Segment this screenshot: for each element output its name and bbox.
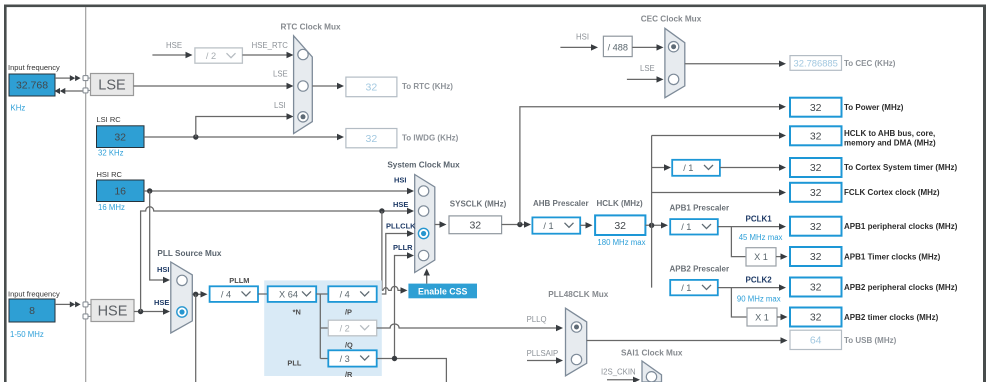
HSE_RTC /2 divider dropdown (grayed) — [195, 48, 243, 63]
svg-text:32: 32 — [114, 131, 126, 143]
/Q divider dropdown (grayed) — [328, 320, 376, 336]
wire APB2 to peripheral box — [718, 287, 783, 289]
svg-text:/ 488: / 488 — [608, 43, 628, 53]
svg-text:APB2 Prescaler: APB2 Prescaler — [670, 264, 730, 273]
CEC clock mux shape — [665, 28, 685, 97]
svg-text:To USB (MHz): To USB (MHz) — [844, 336, 897, 345]
svg-text:HCLK to AHB bus, core,: HCLK to AHB bus, core, — [844, 129, 935, 138]
wire LSE box to port — [55, 78, 83, 91]
wire cortex prescaler to box — [720, 167, 783, 169]
svg-text:HSI: HSI — [157, 265, 170, 274]
wire HSE to PLL source mux — [134, 311, 168, 313]
svg-text:RTC Clock Mux: RTC Clock Mux — [280, 23, 340, 32]
wire to FCLK box — [652, 192, 783, 194]
svg-text:32: 32 — [366, 82, 378, 94]
svg-text:PLL48CLK Mux: PLL48CLK Mux — [548, 290, 608, 299]
HSE oscillator box — [91, 300, 134, 322]
HCLK to AHB value box — [790, 126, 842, 145]
wire AHB to HCLK box — [580, 224, 589, 226]
svg-text:Enable CSS: Enable CSS — [418, 286, 468, 296]
wire PLLCLK from /P to system mux — [377, 234, 412, 295]
svg-text:45 MHz max: 45 MHz max — [739, 233, 783, 242]
system mux radio HSI — [418, 186, 428, 196]
svg-text:APB1 peripheral clocks (MHz): APB1 peripheral clocks (MHz) — [844, 222, 958, 231]
HSE port arrows right — [70, 301, 81, 307]
svg-text:/Q: /Q — [345, 340, 353, 349]
wire SYSCLK up to To Power — [520, 107, 783, 225]
wire PLLQ to PLL48 mux with hop — [377, 324, 560, 328]
svg-text:1-50 MHz: 1-50 MHz — [10, 330, 44, 339]
wire LSE stub to CEC mux — [627, 78, 661, 80]
LSI RC box 32 — [97, 126, 145, 148]
svg-text:APB2 peripheral clocks (MHz): APB2 peripheral clocks (MHz) — [844, 283, 958, 292]
wire HSI stub to /488 — [560, 46, 594, 48]
PLL source mux shape — [171, 262, 193, 333]
svg-text:180 MHz max: 180 MHz max — [597, 238, 645, 247]
svg-text:32: 32 — [810, 187, 822, 199]
To USB value box — [790, 330, 842, 349]
wire HSE stub to /2 divider — [152, 54, 188, 56]
system mux radio PLLCLK selected — [418, 228, 428, 238]
wire PLL mux to PLLM — [192, 293, 204, 295]
junction /R output — [392, 356, 397, 361]
svg-text:memory and DMA (MHz): memory and DMA (MHz) — [844, 139, 936, 148]
HCLK value box — [595, 215, 645, 235]
svg-text:HSI: HSI — [394, 176, 407, 185]
svg-text:PLLM: PLLM — [229, 276, 249, 285]
svg-text:64: 64 — [810, 335, 822, 347]
HSE port squares — [83, 302, 91, 319]
svg-text:APB1 Timer clocks (MHz): APB1 Timer clocks (MHz) — [844, 252, 941, 261]
svg-text:16: 16 — [114, 185, 126, 197]
svg-text:HSE: HSE — [98, 304, 128, 320]
svg-text:Input frequency: Input frequency — [8, 63, 60, 72]
RTC mux radio HSE_RTC — [298, 49, 308, 59]
To Power value box — [790, 98, 842, 117]
svg-text:PCLK1: PCLK1 — [746, 215, 773, 224]
LSE input frequency box 32.768 — [9, 74, 55, 96]
svg-text:HCLK (MHz): HCLK (MHz) — [597, 199, 644, 208]
SAI1 mux shape (partial) — [642, 361, 662, 382]
svg-text:32: 32 — [614, 220, 626, 232]
svg-text:PLLQ: PLLQ — [527, 315, 547, 324]
svg-text:SAI1 Clock Mux: SAI1 Clock Mux — [621, 349, 683, 358]
svg-text:HSI RC: HSI RC — [97, 170, 123, 179]
wire PLLM to N multiplier — [258, 293, 268, 295]
junction PLL mux output — [193, 292, 198, 297]
svg-text:I2S_CKIN: I2S_CKIN — [601, 368, 636, 377]
SAI1 mux radio — [646, 372, 656, 382]
svg-text:*N: *N — [293, 307, 301, 316]
PLL mux radio HSE selected — [177, 307, 187, 317]
APB2 peripheral value box — [790, 278, 842, 297]
APB1 timer value box — [790, 247, 842, 266]
HSE input frequency box 8 — [9, 299, 55, 322]
svg-text:LSE: LSE — [273, 70, 288, 79]
svg-text:LSI: LSI — [274, 101, 286, 110]
svg-text:PLLCLK: PLLCLK — [386, 222, 416, 231]
svg-text:To Power (MHz): To Power (MHz) — [844, 103, 904, 112]
PLL48 mux shape — [566, 308, 587, 376]
wire LSE to RTC mux — [134, 85, 292, 87]
PLL48 mux radio PLLSAIP — [571, 354, 581, 364]
svg-text:LSE: LSE — [98, 78, 126, 94]
svg-text:To Cortex System timer (MHz): To Cortex System timer (MHz) — [844, 163, 958, 172]
HSI RC box 16 — [97, 180, 145, 202]
svg-text:32: 32 — [366, 133, 378, 145]
/488 divider box — [603, 36, 632, 56]
wire /R output — [377, 359, 447, 382]
wire X1 to APB1 timer box — [776, 256, 784, 258]
panel separator line — [85, 7, 86, 382]
wire PLLR from /R to system mux — [395, 256, 413, 359]
junction LSI — [193, 134, 198, 139]
FCLK value box — [790, 183, 842, 202]
svg-text:32.768: 32.768 — [16, 80, 48, 92]
svg-text:32: 32 — [810, 102, 822, 114]
LSE port arrows left — [55, 88, 66, 94]
wire to cortex prescaler — [652, 167, 668, 169]
N multiplier dropdown X 64 — [268, 286, 317, 302]
junction SYSCLK — [517, 222, 522, 227]
svg-text:HSE: HSE — [166, 41, 182, 50]
svg-text:/ 3: / 3 — [340, 354, 350, 364]
wire LSI to junction and IWDG — [144, 136, 341, 138]
svg-text:32 KHz: 32 KHz — [98, 149, 124, 158]
APB1 prescaler dropdown — [670, 219, 718, 234]
CEC mux radio LSE — [668, 74, 678, 84]
svg-text:LSE: LSE — [640, 64, 655, 73]
svg-text:HSI: HSI — [576, 33, 589, 42]
wire LSI up to RTC mux — [196, 117, 291, 138]
svg-text:/ 1: / 1 — [543, 221, 553, 231]
junction HSE — [138, 309, 143, 314]
RTC clock mux shape — [294, 36, 313, 134]
PLL48 mux radio PLLQ selected — [571, 322, 581, 332]
svg-text:X 1: X 1 — [754, 252, 768, 262]
svg-text:32.786885: 32.786885 — [794, 57, 838, 68]
svg-text:KHz: KHz — [11, 104, 26, 113]
svg-text:32: 32 — [810, 131, 822, 143]
wire system mux to SYSCLK box — [435, 224, 444, 226]
APB2 prescaler dropdown — [670, 280, 718, 295]
wire /2 to RTC mux — [242, 54, 291, 56]
svg-text:/ 1: / 1 — [681, 283, 691, 293]
junction HSI — [147, 188, 152, 193]
svg-text:CEC Clock Mux: CEC Clock Mux — [641, 15, 702, 24]
LSE port squares — [83, 76, 91, 93]
junction HSE css branch — [379, 208, 384, 213]
wire APB1 to peripheral box — [718, 226, 783, 228]
wire APB1 branch to X1 — [731, 227, 746, 257]
cortex prescaler dropdown — [672, 160, 720, 176]
svg-text:/ 2: / 2 — [206, 51, 216, 61]
svg-text:8: 8 — [29, 305, 35, 317]
svg-text:/ 1: / 1 — [683, 163, 693, 173]
svg-text:LSI RC: LSI RC — [97, 115, 122, 124]
svg-text:/ 1: / 1 — [681, 222, 691, 232]
svg-text:/ 4: / 4 — [221, 290, 231, 300]
svg-text:FCLK Cortex clock (MHz): FCLK Cortex clock (MHz) — [844, 188, 940, 197]
svg-text:/P: /P — [345, 307, 352, 316]
junction HCLK — [649, 223, 654, 228]
svg-text:PLLSAIP: PLLSAIP — [527, 349, 559, 358]
/R divider dropdown — [328, 350, 376, 366]
LSE oscillator box — [91, 74, 134, 96]
CEC mux radio HSI selected — [668, 42, 678, 52]
svg-text:X 64: X 64 — [279, 290, 298, 300]
wire HSE down to CSS with hops — [382, 211, 405, 290]
svg-text:32: 32 — [469, 220, 481, 232]
wire I2S_CKIN stub — [607, 379, 637, 381]
To CEC value box — [790, 56, 842, 71]
svg-text:32: 32 — [810, 162, 822, 174]
svg-text:HSE: HSE — [393, 200, 408, 209]
wire HSE box to port — [55, 303, 70, 305]
svg-text:To RTC (KHz): To RTC (KHz) — [402, 82, 453, 91]
To Cortex value box — [790, 158, 842, 177]
svg-text:90 MHz max: 90 MHz max — [737, 295, 781, 304]
system clock mux shape — [415, 175, 435, 273]
Enable CSS button — [408, 284, 477, 299]
LSE port arrows right — [70, 75, 81, 81]
PLL block region — [264, 280, 382, 376]
svg-text:X 1: X 1 — [755, 312, 769, 322]
X1 multiplier box APB1 — [746, 248, 776, 266]
svg-text:SYSCLK (MHz): SYSCLK (MHz) — [450, 200, 507, 209]
HCLK distribution riser — [651, 136, 653, 288]
wire HCLK to APB1 prescaler — [645, 224, 665, 226]
RTC mux radio LSI selected — [298, 112, 308, 122]
CSS arrow up to mux — [426, 274, 428, 284]
APB1 peripheral value box — [790, 217, 842, 236]
svg-text:APB1 Prescaler: APB1 Prescaler — [670, 204, 730, 213]
svg-text:/R: /R — [345, 370, 353, 379]
svg-text:PLLR: PLLR — [393, 243, 413, 252]
svg-text:To CEC (KHz): To CEC (KHz) — [844, 59, 896, 68]
wire X1 to APB2 timer box — [777, 316, 784, 318]
PLLM dropdown — [210, 286, 258, 302]
wire PLL mux output down — [195, 294, 197, 382]
system mux radio HSE — [418, 206, 428, 216]
AHB prescaler dropdown — [532, 217, 580, 233]
wire APB2 branch to X1 — [731, 288, 747, 317]
svg-text:To IWDG (KHz): To IWDG (KHz) — [402, 134, 459, 143]
HCLK to AHB label — [844, 129, 936, 148]
svg-text:PLL: PLL — [287, 359, 301, 368]
PLL mux radio HSI — [177, 275, 187, 285]
wire HCLK to AHB bus box — [652, 135, 783, 137]
/P divider dropdown — [328, 286, 376, 302]
wire SYSCLK to AHB prescaler — [502, 224, 528, 226]
svg-text:Input frequency: Input frequency — [8, 290, 60, 299]
wire /488 to CEC mux — [632, 46, 660, 48]
svg-text:HSE: HSE — [154, 298, 169, 307]
svg-text:32: 32 — [810, 312, 822, 324]
wire HSI down to PLL source mux — [150, 191, 168, 280]
svg-text:APB2 timer clocks (MHz): APB2 timer clocks (MHz) — [844, 313, 939, 322]
svg-text:16 MHz: 16 MHz — [98, 203, 125, 212]
X1 multiplier box APB2 — [747, 308, 777, 326]
svg-text:System Clock Mux: System Clock Mux — [387, 161, 460, 170]
APB2 timer value box — [790, 308, 842, 327]
To IWDG value box — [346, 129, 397, 148]
wire PLL48 mux to USB box — [587, 340, 784, 342]
svg-text:/ 2: / 2 — [340, 323, 350, 333]
wire HSE up to system clock mux with hop — [141, 207, 412, 312]
To RTC value box — [346, 77, 397, 97]
wire HSI to system clock mux — [144, 190, 412, 192]
system mux radio PLLR — [418, 250, 428, 260]
svg-text:PLL Source Mux: PLL Source Mux — [157, 249, 221, 258]
SYSCLK value box — [449, 216, 502, 234]
svg-text:32: 32 — [810, 221, 822, 233]
RTC mux radio LSE — [298, 81, 308, 91]
svg-text:HSE_RTC: HSE_RTC — [252, 41, 289, 50]
svg-text:32: 32 — [810, 282, 822, 294]
wire N to P Q R dividers — [316, 294, 328, 359]
svg-text:PCLK2: PCLK2 — [746, 276, 773, 285]
svg-text:32: 32 — [810, 251, 822, 263]
wire CEC mux to To CEC box — [685, 63, 783, 65]
svg-text:/ 4: / 4 — [340, 290, 350, 300]
wire RTC mux to To RTC box — [312, 85, 341, 87]
wire PLLSAIP stub — [527, 360, 560, 362]
svg-text:AHB Prescaler: AHB Prescaler — [533, 199, 589, 208]
